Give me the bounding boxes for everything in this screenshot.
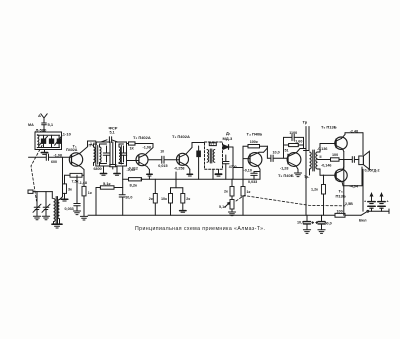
svg-text:0,05ГД-2: 0,05ГД-2 (365, 168, 380, 172)
svg-text:2,5В: 2,5В (345, 202, 353, 206)
svg-text:600: 600 (51, 160, 57, 164)
svg-text:1100: 1100 (289, 131, 297, 135)
svg-text:1к: 1к (88, 191, 92, 195)
svg-text:-0,10: -0,10 (244, 168, 252, 172)
svg-text:Т₅ П40Б: Т₅ П40Б (278, 173, 294, 178)
svg-text:-0,146: -0,146 (321, 163, 331, 167)
svg-text:+: + (364, 200, 366, 204)
svg-text:1-10: 1-10 (63, 132, 72, 137)
svg-text:Т₃ П402А: Т₃ П402А (172, 134, 190, 139)
svg-text:Т₂ П402А: Т₂ П402А (133, 135, 151, 140)
svg-text:А: А (38, 113, 41, 118)
svg-text:10: 10 (160, 149, 164, 153)
svg-text:Д₁: Д₁ (226, 131, 231, 136)
svg-text:1,2к: 1,2к (311, 188, 318, 192)
svg-text:Т₄ П40Б: Т₄ П40Б (247, 132, 263, 137)
svg-text:II: II (320, 155, 322, 159)
svg-text:50,0: 50,0 (325, 222, 332, 226)
svg-text:0,015: 0,015 (158, 164, 167, 168)
svg-text:1К: 1К (130, 146, 135, 150)
svg-text:+: + (387, 200, 389, 204)
svg-text:5,1: 5,1 (110, 130, 115, 134)
svg-text:10,0: 10,0 (297, 221, 304, 225)
svg-text:Вкл: Вкл (359, 218, 367, 223)
svg-text:3к: 3к (68, 188, 72, 192)
svg-text:Т₅ П13Б: Т₅ П13Б (321, 125, 337, 130)
svg-text:-1,08: -1,08 (54, 154, 62, 158)
svg-text:0,033: 0,033 (248, 180, 257, 184)
svg-text:-1,60: -1,60 (294, 140, 302, 144)
svg-text:10к: 10к (161, 197, 167, 201)
svg-text:-1,28: -1,28 (280, 166, 288, 170)
svg-text:2к: 2к (186, 197, 190, 201)
svg-text:4700: 4700 (229, 165, 237, 169)
svg-text:МА: МА (28, 123, 34, 127)
svg-text:Л-580: Л-580 (36, 127, 48, 132)
svg-text:-1,48: -1,48 (79, 181, 87, 185)
svg-text:51: 51 (285, 148, 289, 152)
svg-text:5,1: 5,1 (211, 142, 215, 146)
svg-text:6800: 6800 (94, 167, 102, 171)
svg-text:Тр₁: Тр₁ (304, 175, 310, 179)
svg-text:Тр: Тр (303, 120, 308, 125)
svg-text:-2,48: -2,48 (350, 129, 358, 133)
svg-text:-0,258: -0,258 (174, 166, 184, 170)
svg-text:5,1к: 5,1к (219, 205, 226, 209)
svg-text:100к: 100к (250, 140, 258, 144)
svg-text:ПЧ: ПЧ (89, 143, 95, 147)
svg-text:5,1: 5,1 (48, 122, 54, 127)
svg-text:100: 100 (337, 209, 343, 213)
svg-text:Принципиальная схема приемника: Принципиальная схема приемника «Алмаз-Т»… (135, 226, 265, 232)
svg-text:П402А: П402А (66, 148, 78, 152)
svg-text:-1,08: -1,08 (143, 146, 151, 150)
svg-text:2к: 2к (224, 190, 228, 194)
svg-text:-4,94: -4,94 (350, 184, 359, 188)
svg-text:10,0: 10,0 (273, 151, 280, 155)
svg-text:2к: 2к (149, 197, 153, 201)
svg-text:1к: 1к (247, 190, 251, 194)
svg-text:МД-3: МД-3 (223, 136, 234, 141)
svg-text:10,0: 10,0 (125, 195, 132, 199)
svg-text:-0,136: -0,136 (317, 147, 327, 151)
svg-text:8,2к: 8,2к (130, 182, 138, 187)
svg-text:П13Б: П13Б (336, 194, 346, 199)
svg-text:5,1к: 5,1к (103, 181, 111, 186)
svg-text:-0,45: -0,45 (127, 168, 135, 172)
svg-text:0,033: 0,033 (65, 207, 74, 211)
svg-text:100: 100 (332, 153, 338, 157)
